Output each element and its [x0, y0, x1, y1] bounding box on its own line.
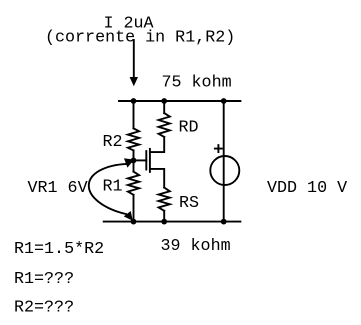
transistor Q1 gate bar: [145, 151, 147, 169]
wire left branch top lead: [133, 101, 135, 128]
transistor Q1 gate wire: [134, 159, 147, 161]
svg-text:39 kohm: 39 kohm: [161, 237, 231, 256]
svg-text:RS: RS: [179, 194, 199, 213]
wire middle branch top lead: [163, 101, 165, 113]
wire RD to drain: [150, 137, 164, 152]
svg-text:R1: R1: [103, 178, 123, 197]
wire right branch: [223, 101, 225, 222]
transistor Q1 source arm: [150, 169, 164, 188]
node top-right: [221, 98, 227, 104]
svg-text:VR1 6V: VR1 6V: [28, 179, 88, 198]
wire top rail: [119, 100, 240, 102]
svg-text:R1=1.5*R2: R1=1.5*R2: [14, 240, 104, 259]
resistor R2: [128, 128, 139, 150]
wire R1 to bottom rail: [133, 195, 135, 222]
wire RS to bottom rail: [163, 211, 165, 222]
node bottom-left: [131, 219, 137, 225]
wire node A to R1: [133, 160, 135, 171]
node top-left: [131, 98, 137, 104]
svg-text:R2=???: R2=???: [14, 298, 74, 317]
resistor R1: [128, 172, 139, 195]
voltage source plus sign: [215, 145, 222, 152]
svg-text:75 kohm: 75 kohm: [162, 73, 232, 92]
transistor Q1 channel bar: [149, 149, 151, 172]
current source I arrow line: [133, 40, 135, 78]
node top-middle: [161, 98, 167, 104]
current source I arrowhead: [130, 77, 138, 86]
node bottom-middle: [161, 219, 167, 225]
svg-text:R2: R2: [103, 133, 123, 152]
svg-text:VDD 10 V: VDD 10 V: [267, 179, 347, 198]
node A between R2 R1: [131, 158, 137, 164]
VR1 arc arrowhead top: [124, 158, 134, 167]
VR1 arc arrowhead bottom: [124, 211, 133, 221]
wire R2 to node A: [133, 150, 135, 160]
svg-text:R1=???: R1=???: [14, 270, 74, 289]
resistor RS: [159, 188, 170, 211]
wire bottom rail: [104, 221, 241, 223]
node bottom-right: [221, 219, 227, 225]
svg-text:(corrente in R1,R2): (corrente in R1,R2): [45, 29, 235, 48]
resistor RD: [159, 113, 170, 137]
voltage source VDD circle: [210, 156, 239, 185]
svg-text:RD: RD: [179, 119, 199, 138]
voltage arc VR1: [89, 164, 127, 214]
